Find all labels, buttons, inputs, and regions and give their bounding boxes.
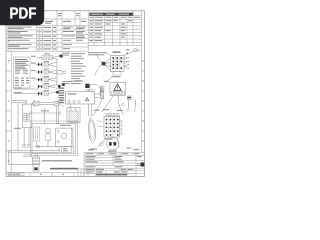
spade terminals	[23, 145, 30, 148]
harness inline connector	[102, 62, 106, 66]
wire heater drop	[36, 141, 38, 147]
wire B4 bottom left	[101, 95, 113, 112]
S1 top connector blob	[62, 83, 65, 85]
company logo	[137, 162, 145, 166]
small connector on right drop	[127, 96, 131, 100]
enclosure unit box	[32, 123, 76, 153]
junction bus wire	[56, 59, 58, 87]
parts list cell text	[90, 20, 133, 41]
wire from notes area to connector row 5	[14, 88, 39, 90]
wire CN2 bottom left	[99, 137, 107, 147]
harness fan into CN1 c	[105, 64, 110, 67]
wire CN1 sub box down-left	[106, 76, 113, 84]
notes text block	[15, 59, 29, 86]
title block text	[86, 153, 143, 172]
parts list table grid right	[89, 11, 142, 46]
heater element E1	[34, 127, 40, 141]
sheet inner border right	[141, 11, 143, 153]
control box B2	[66, 92, 95, 105]
control box internal terminals	[68, 101, 80, 104]
footer text	[9, 173, 19, 176]
inline fuse holder V1 upper	[100, 87, 104, 92]
title block drawing number	[96, 174, 127, 176]
terminal box B4	[110, 82, 125, 95]
harness fan into CN1 d	[105, 65, 110, 69]
inline fuse holder V1 lower	[100, 93, 104, 99]
revision table header text	[45, 13, 86, 24]
CN1 corner tie line	[107, 53, 111, 56]
feeder drop into filter box	[25, 101, 27, 105]
enclosure sub box	[62, 147, 72, 153]
connector CN2 body	[104, 117, 120, 138]
component labels above control box	[63, 80, 83, 84]
connector CN1 bottom label	[113, 76, 121, 77]
enclosure label	[60, 125, 71, 126]
control box top tab	[86, 89, 89, 91]
top right sensor label	[126, 49, 130, 50]
wire loop to CN2 b	[98, 126, 104, 127]
connector CN1 cell lines	[111, 55, 125, 71]
zone letters right border	[142, 61, 144, 142]
connector pair row 2	[31, 61, 57, 67]
connector CN1 label	[113, 52, 121, 53]
capacitor blob	[85, 84, 89, 88]
compressor box	[56, 128, 73, 146]
wire color legend list	[71, 53, 86, 84]
CN1 pin number marks	[127, 57, 129, 68]
sheet inner border bottom	[6, 171, 78, 173]
title block outline	[84, 153, 144, 177]
cable drop to enclosure 2	[58, 106, 60, 124]
connector CN2 pins	[106, 119, 119, 136]
long bus wire vertical	[17, 103, 19, 151]
supply wire horizontal upper	[9, 150, 60, 152]
wire drops to cord grip	[35, 153, 37, 157]
revision table row text	[8, 27, 87, 50]
terminal strip S1	[59, 88, 65, 104]
zone tick marks right border	[142, 71, 145, 131]
wire pair right drop b	[134, 100, 137, 113]
cable bundle W1 left connector	[35, 101, 40, 106]
title block rows	[84, 155, 144, 173]
B4 pin row	[112, 91, 125, 94]
supply wire left drop	[8, 151, 10, 165]
filter box	[22, 104, 31, 128]
labels above title block	[90, 148, 139, 151]
wire compressor to box bottom	[58, 146, 60, 151]
wire CN2 bottom right	[117, 137, 119, 147]
wire V1 down-left	[93, 99, 102, 116]
parts list header row text	[90, 17, 141, 18]
loop tail label	[88, 149, 94, 150]
sheet inner border left	[10, 51, 12, 172]
service loop inner	[90, 120, 95, 140]
connector pair row 4	[31, 76, 57, 82]
connector pair row 3	[31, 69, 66, 75]
connector CN1 pins	[112, 57, 122, 69]
dimension line under cable	[30, 111, 60, 115]
revision table grid left	[7, 11, 89, 51]
schematic note label 1	[42, 160, 72, 161]
connector CN2 top tabs	[106, 114, 119, 116]
wire label	[14, 87, 22, 90]
B4 label	[104, 81, 109, 82]
feeder wire horizontal a	[11, 100, 26, 102]
connector CN1 sub box	[113, 72, 121, 76]
connector CN1 body	[111, 55, 125, 71]
control box label	[68, 93, 77, 94]
zone tick marks left border	[6, 31, 11, 151]
cable bundle W1 right connector	[54, 101, 59, 106]
wire compressor to box bottom b	[73, 146, 75, 153]
label below P1	[108, 151, 116, 152]
service loop outer	[89, 118, 96, 143]
wire drop to fan motor	[43, 108, 45, 123]
zone tick marks bottom border	[30, 172, 74, 176]
feeder wire horizontal b	[11, 102, 26, 104]
top right sensor lead	[124, 50, 141, 56]
harness bundle curve	[95, 65, 102, 76]
connector CN1 side tabs	[124, 57, 127, 67]
round connector P1 pins	[109, 142, 116, 146]
connector CN2 side tabs	[120, 121, 122, 135]
cord grip	[33, 157, 40, 164]
wire B2 right exit upper	[95, 86, 103, 94]
wire B4 bottom mid	[118, 95, 124, 115]
filter out wire left	[23, 128, 25, 147]
enclosure outer shield box	[30, 121, 77, 155]
round connector P1	[107, 138, 119, 150]
connector pair row 1	[31, 53, 63, 59]
cable bundle W1 right fan	[59, 100, 64, 107]
wire label smudge	[14, 128, 21, 129]
wire inside enclosure	[34, 146, 56, 148]
wire loop to CN2 a	[97, 121, 104, 123]
harness curve upper-left	[96, 55, 102, 63]
filter hatched bar left	[24, 113, 27, 121]
cable drop to enclosure 1	[56, 106, 58, 124]
relay coil box B3	[67, 108, 80, 123]
wire loop ring	[122, 103, 124, 105]
wire fan motor drop	[47, 140, 49, 146]
connector CN2 cell lines	[109, 117, 117, 138]
filter hatched bar right	[27, 113, 30, 121]
connector pair row 5	[38, 83, 61, 89]
connector pair row 6	[38, 90, 59, 96]
dimension label	[41, 109, 49, 112]
wire box B2 to coil	[70, 104, 72, 108]
loop harness labels	[94, 109, 124, 111]
wires P1 to title block	[110, 150, 116, 153]
wire B2 bottom to loop vertical 2	[90, 104, 92, 116]
wire from notes area to connector row 6	[14, 93, 39, 95]
top right sensor	[127, 49, 138, 54]
mains plug	[33, 164, 39, 171]
wire pair right drop a	[127, 100, 130, 112]
warning triangle in B4	[114, 84, 121, 90]
sheet outer border frame	[6, 11, 144, 177]
harness fan into CN1 b	[105, 62, 110, 64]
title block left extension	[78, 169, 84, 177]
cable bundle W1 left fan	[32, 100, 35, 107]
small ring terminal	[100, 142, 104, 146]
schematic note label 2	[50, 168, 78, 170]
junction node	[37, 145, 39, 147]
zone letters left border	[8, 41, 10, 162]
notes box	[14, 57, 31, 88]
fan motor M1	[46, 128, 51, 140]
supply wire horizontal lower	[9, 152, 60, 154]
footer strip items	[8, 173, 24, 176]
coil winding hatched	[69, 111, 78, 122]
parts list dark header band	[89, 13, 133, 16]
connector CN2 label below	[105, 138, 113, 139]
legend title lines	[62, 52, 107, 55]
wire to plug from left riser	[9, 164, 33, 166]
terminal lugs on supply wires	[24, 154, 32, 157]
cable bundle W1 core	[39, 103, 54, 105]
wire B2 bottom to loop vertical 1	[88, 104, 90, 116]
svg-text:PDF: PDF	[10, 6, 37, 23]
zone numbers bottom border	[17, 174, 64, 175]
harness fan into CN1 a	[105, 58, 110, 63]
wire capacitor to fuse holder	[90, 84, 101, 91]
title block columns	[88, 153, 136, 177]
wire B2 right exit lower	[95, 97, 99, 99]
PDF badge	[0, 0, 44, 25]
warning triangle in control box	[86, 98, 89, 101]
filter out wire right	[28, 128, 30, 147]
wire label	[14, 91, 22, 94]
